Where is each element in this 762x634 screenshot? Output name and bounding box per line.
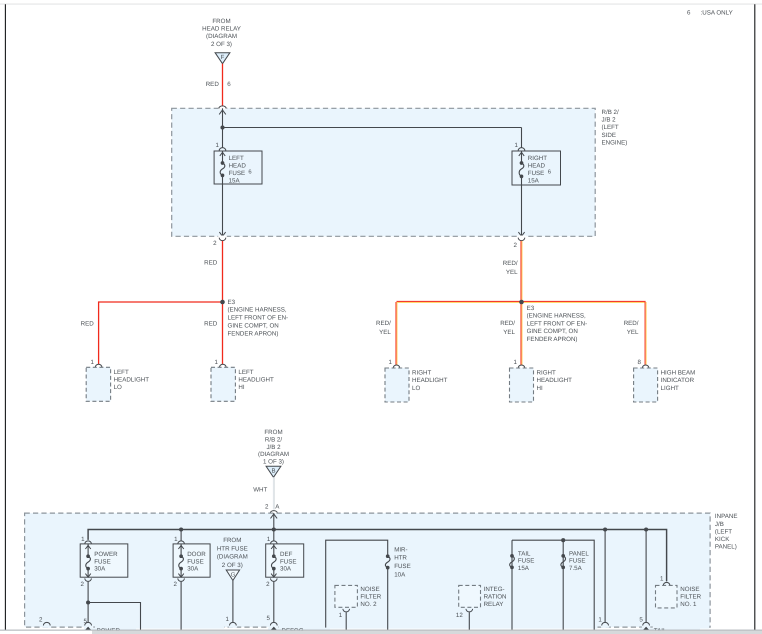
svg-text:HEAD RELAY: HEAD RELAY (202, 26, 241, 33)
svg-text:FILTER: FILTER (680, 594, 701, 601)
svg-text:RED/: RED/ (376, 320, 391, 327)
pin 1 noise filter 2 (339, 609, 350, 619)
fuse box RIGHT HEAD FUSE (512, 151, 561, 185)
svg-text:LEFT: LEFT (229, 155, 244, 162)
svg-text:FENDER APRON): FENDER APRON) (228, 330, 279, 337)
svg-text:6: 6 (548, 168, 551, 175)
wire right fuse to box bottom (521, 176, 523, 236)
pin 1 left head fuse (216, 142, 226, 151)
arrow into fuse box (220, 152, 225, 156)
svg-text:INDICATOR: INDICATOR (661, 377, 695, 384)
component INTEGRATION RELAY (459, 585, 481, 607)
component TAIL (cut) box top (640, 628, 700, 631)
svg-text:KICK: KICK (715, 536, 730, 543)
label superscript 6 (548, 168, 551, 175)
fuse TAIL FUSE 15A element (510, 554, 515, 569)
wire entry to bus (273, 513, 275, 529)
entry arc into INPANE J/B (270, 511, 277, 513)
label NOISE FILTER NO. 2 (360, 586, 381, 608)
svg-text:G: G (231, 571, 236, 578)
svg-text:J/B 2: J/B 2 (602, 117, 617, 124)
svg-text:RED: RED (204, 321, 218, 328)
page top border line (0, 3, 762, 5)
svg-text:15A: 15A (518, 565, 530, 572)
svg-text:NO. 2: NO. 2 (360, 601, 377, 608)
wire mir-htr loop (326, 540, 388, 630)
svg-text:(DIAGRAM: (DIAGRAM (206, 33, 237, 40)
pin 5 def exit (266, 615, 277, 625)
pin 1 noise filter 1 (660, 575, 670, 585)
label INTEG-RATION RELAY (484, 586, 507, 608)
arrow def exit (271, 627, 277, 630)
svg-text:SIDE: SIDE (602, 132, 616, 139)
label DOOR FUSE 30A (187, 551, 206, 573)
wire pin1 to door fuse (180, 544, 182, 556)
svg-text::USA ONLY: :USA ONLY (701, 9, 733, 16)
svg-text:6: 6 (227, 81, 231, 88)
svg-text:WHT: WHT (253, 486, 267, 493)
pin 1 left headlight lo (91, 359, 102, 367)
box edge gap patch 3 (279, 626, 598, 629)
svg-text:(LEFT: (LEFT (602, 124, 619, 131)
svg-text:B: B (271, 468, 275, 475)
svg-text:HEAD: HEAD (229, 162, 247, 169)
wire junction to left fuse pin1 (222, 128, 224, 148)
component HIGH BEAM INDICATOR LIGHT (634, 368, 658, 402)
svg-text:MIR-: MIR- (394, 546, 407, 553)
svg-text:FUSE: FUSE (394, 563, 411, 570)
svg-text:TAIL: TAIL (518, 550, 531, 557)
label LEFT HEADLIGHT HI (238, 369, 274, 391)
svg-text:R/B 2/: R/B 2/ (602, 109, 619, 116)
wire door fuse down (180, 582, 182, 630)
label TAIL (cut) (654, 627, 667, 634)
fuse MIR-HTR FUSE 10A element (385, 554, 390, 569)
pin 1 right head fuse (515, 142, 525, 151)
arrow def exit repeat (271, 627, 277, 630)
svg-text:R/B 2/: R/B 2/ (265, 436, 282, 443)
svg-text:PANEL): PANEL) (715, 544, 737, 551)
fuse box DEF FUSE (266, 544, 304, 577)
svg-text:J/B 2: J/B 2 (266, 444, 281, 451)
svg-text:INPANE: INPANE (715, 513, 738, 520)
arrow power exit (85, 627, 91, 630)
svg-text:15A: 15A (229, 177, 241, 184)
label RED (204, 259, 218, 266)
wire branch right (88, 603, 140, 630)
wire mir-htr fuse down (387, 568, 389, 630)
svg-text:GINE COMPT, ON: GINE COMPT, ON (228, 323, 279, 330)
fuse box DOOR FUSE (173, 544, 210, 577)
arrow exit power fuse box (85, 574, 90, 578)
pin 1 right exit (598, 616, 608, 625)
svg-text:12: 12 (456, 612, 463, 619)
svg-text:2 OF 3): 2 OF 3) (222, 562, 243, 569)
svg-text:YEL: YEL (627, 329, 639, 336)
label E3 engine harness right (527, 305, 588, 343)
svg-text:1: 1 (215, 359, 219, 366)
pin 1 power fuse (81, 536, 91, 544)
wire RED fuse to node E3 (222, 241, 224, 302)
pin 1 left headlight hi (215, 359, 227, 367)
svg-text:NO. 1: NO. 1 (680, 601, 697, 608)
wire right pin1 column (604, 530, 606, 623)
label RED (81, 321, 95, 328)
pin 2 label (265, 503, 269, 510)
wire tail-panel sub bus (512, 540, 594, 630)
dash gap under def pin5 (270, 626, 278, 628)
svg-text:10A: 10A (394, 571, 406, 578)
component DEFOG (cut) box top (268, 628, 330, 631)
bottom grey strip (92, 631, 762, 634)
dash gap at entry (218, 108, 227, 110)
svg-text:(DIAGRAM: (DIAGRAM (258, 451, 289, 458)
wire def fuse to box bottom (273, 569, 275, 578)
pin 12 integration relay (456, 609, 473, 619)
svg-text:(LEFT: (LEFT (715, 528, 732, 535)
label RED (206, 81, 220, 88)
wire RED/YEL branch bus (397, 302, 646, 303)
svg-text:FENDER APRON): FENDER APRON) (527, 336, 578, 343)
page right border line (754, 4, 756, 630)
arrow tail exit repeat (643, 627, 649, 630)
label RED/ YEL (500, 320, 515, 336)
page bottom edge line (0, 629, 762, 631)
label FROM HTR FUSE (DIAGRAM 2 OF 3) (217, 537, 248, 569)
label RIGHT HEAD FUSE 15A (528, 155, 547, 185)
label NOISE FILTER NO. 1 (680, 586, 701, 608)
arrow exit box bottom (219, 232, 225, 236)
label DEF FUSE 30A (280, 551, 297, 573)
arrow exit door fuse box (178, 574, 183, 578)
wire RED/YEL to right headlight lo (396, 302, 397, 365)
wire door fuse to box bottom (180, 569, 182, 578)
arrow exit box bottom (518, 232, 524, 236)
svg-text:RELAY: RELAY (484, 601, 504, 608)
svg-text:1 OF 3): 1 OF 3) (263, 459, 284, 466)
component RIGHT HEADLIGHT HI (510, 368, 534, 402)
label PANEL FUSE 7.5A (569, 550, 589, 572)
svg-text:30A: 30A (94, 566, 106, 573)
svg-text:2: 2 (39, 617, 43, 624)
svg-text:GINE COMPT, ON: GINE COMPT, ON (527, 328, 578, 335)
svg-text:LEFT: LEFT (238, 369, 253, 376)
dash gap under right pin1 (601, 626, 609, 628)
svg-text:1: 1 (91, 359, 95, 366)
R/B 2 J/B 2 box (172, 108, 596, 236)
svg-text:2: 2 (80, 581, 84, 588)
label FROM R/B 2/ J/B 2 (DIAGRAM 1 OF 3) (258, 429, 289, 466)
pin 2 def fuse (266, 578, 277, 588)
svg-text:LEFT FRONT OF EN-: LEFT FRONT OF EN- (527, 320, 588, 327)
svg-text:(DIAGRAM: (DIAGRAM (217, 554, 248, 561)
fuse DOOR FUSE 30A element (179, 554, 184, 570)
fuse box POWER FUSE (80, 544, 128, 577)
page left border line (4, 4, 6, 630)
junction dot power branch (86, 600, 90, 604)
pin 2 power fuse (80, 578, 91, 588)
wire noise filter 2 down (345, 612, 347, 630)
svg-text:1: 1 (267, 536, 271, 543)
wire to right head fuse (521, 128, 523, 148)
wire RED/YEL to right headlight hi (521, 302, 522, 365)
label HIGH BEAM INDICATOR LIGHT (661, 370, 696, 392)
svg-text:DEF: DEF (280, 551, 293, 558)
pin 1 def fuse (267, 536, 277, 544)
wire inside R/B box horizontal bus (223, 127, 522, 129)
svg-text:7.5A: 7.5A (569, 565, 583, 572)
label POWER (cut) (97, 627, 121, 634)
wire inside R/B box vertical from entry (222, 108, 224, 127)
node E3 right (519, 300, 524, 305)
svg-text:E3: E3 (527, 305, 535, 312)
dash gap under stub 2 (43, 626, 51, 628)
svg-text:FUSE: FUSE (187, 558, 204, 565)
component POWER (cut) box top (84, 628, 136, 631)
wire RED E3 to left headlight hi (222, 302, 224, 364)
fuse box LEFT HEAD FUSE (214, 151, 262, 184)
svg-text:DOOR: DOOR (187, 551, 206, 558)
svg-text:YEL: YEL (503, 329, 515, 336)
junction dot door (179, 527, 183, 531)
pin 1 right headlight hi (514, 359, 525, 368)
svg-text:RED: RED (81, 321, 95, 328)
arrow into def fuse box (271, 545, 276, 549)
svg-text:6: 6 (248, 168, 251, 175)
dash gap under power pin5 (84, 626, 92, 628)
svg-text:2: 2 (266, 581, 270, 588)
svg-text:HEADLIGHT: HEADLIGHT (537, 377, 573, 384)
svg-text:HTR: HTR (394, 555, 407, 562)
svg-text:POWER: POWER (94, 551, 118, 558)
fuse DEF FUSE 30A element (271, 554, 276, 570)
connector B from R/B (266, 466, 281, 477)
pin 1 door fuse (174, 536, 184, 544)
svg-text:1: 1 (339, 612, 343, 619)
svg-text:ENGINE): ENGINE) (602, 140, 628, 147)
svg-text:RED: RED (206, 81, 220, 88)
wire junction to door fuse pin1 (180, 530, 182, 542)
fuse POWER FUSE 30A element (86, 554, 91, 570)
label RIGHT HEADLIGHT HI (537, 370, 573, 392)
pin 2 door fuse (173, 578, 184, 588)
svg-text:FUSE: FUSE (94, 558, 111, 565)
svg-text:J/B: J/B (715, 521, 724, 528)
wire def fuse down (273, 582, 275, 623)
label FROM HEAD RELAY (DIAGRAM 2 OF 3) (202, 18, 241, 48)
svg-text:FROM: FROM (223, 537, 241, 544)
svg-text:FUSE: FUSE (518, 558, 535, 565)
svg-text:HEADLIGHT: HEADLIGHT (412, 377, 448, 384)
label RED (204, 321, 218, 328)
component RIGHT HEADLIGHT LO (385, 368, 409, 402)
label E3 engine harness left (228, 299, 289, 338)
label RED/ YEL (624, 320, 639, 336)
arrow exit def fuse box (271, 574, 276, 578)
svg-text:NOISE: NOISE (680, 586, 699, 593)
svg-text:RIGHT: RIGHT (412, 370, 431, 377)
svg-text:YEL: YEL (506, 269, 518, 276)
wire left fuse to box bottom (222, 175, 224, 236)
svg-text:15A: 15A (528, 177, 540, 184)
connector F from head relay (215, 53, 230, 64)
svg-text:RED: RED (204, 259, 218, 266)
svg-text:6: 6 (687, 9, 691, 16)
pin 2 arc left (213, 238, 226, 247)
svg-text:2: 2 (213, 240, 217, 247)
svg-text:HIGH BEAM: HIGH BEAM (661, 370, 696, 377)
label WHT (253, 486, 267, 493)
node E3 left (220, 300, 225, 305)
arrow into INPANE box (271, 514, 278, 518)
svg-text:1: 1 (660, 575, 664, 582)
svg-text:HEADLIGHT: HEADLIGHT (114, 377, 150, 384)
svg-text:FUSE: FUSE (229, 170, 246, 177)
svg-text:8: 8 (638, 359, 642, 366)
component NOISE FILTER NO.2 (335, 585, 358, 607)
svg-text:1: 1 (226, 616, 230, 623)
label 6 (227, 81, 231, 88)
svg-text:1: 1 (514, 359, 518, 366)
pin 5 power exit (84, 618, 92, 625)
wire WHT connector B to J/B (273, 477, 275, 509)
svg-text:FILTER: FILTER (360, 593, 381, 600)
svg-text:PANEL: PANEL (569, 550, 589, 557)
wire tail fuse column (511, 540, 513, 630)
label MIR-HTR FUSE 10A (394, 546, 411, 578)
svg-text:E3: E3 (228, 299, 236, 306)
svg-text:5: 5 (266, 615, 270, 622)
box edge gap patch 2 (95, 626, 224, 629)
label RED/ YEL (503, 260, 518, 276)
wire integration relay down (468, 612, 470, 630)
pin 1 HTR exit (226, 616, 237, 626)
arrow into power fuse box (85, 545, 90, 549)
svg-text:RIGHT: RIGHT (537, 370, 556, 377)
wire RED/YEL to high beam indicator (645, 302, 646, 365)
svg-text:5: 5 (639, 617, 643, 624)
svg-text:30A: 30A (187, 566, 199, 573)
svg-text:2: 2 (265, 503, 269, 510)
fuse PANEL FUSE 7.5A element (561, 554, 566, 569)
svg-text:FROM: FROM (264, 429, 282, 436)
junction dot pin5 right (644, 527, 648, 531)
svg-text:1: 1 (598, 616, 602, 623)
svg-text:FUSE: FUSE (280, 558, 297, 565)
entry arc into R/B box (219, 106, 226, 114)
pin 5 right exit (639, 617, 649, 626)
bus wire inside J/B (88, 530, 667, 582)
label POWER FUSE 30A (94, 551, 118, 573)
pin 2 stub far left (39, 617, 50, 626)
dash gap under right pin5 (642, 626, 650, 628)
pin 1 right headlight lo (389, 359, 400, 368)
wire HTR connector down (232, 581, 234, 623)
svg-text:RIGHT: RIGHT (528, 155, 547, 162)
dash gap under htr pin1 (229, 626, 237, 628)
pin 8 high beam indicator (638, 359, 649, 368)
svg-text:1: 1 (389, 359, 393, 366)
svg-text:(ENGINE HARNESS,: (ENGINE HARNESS, (527, 313, 586, 320)
junction dot def (272, 527, 276, 531)
wire power fuse down (87, 582, 89, 623)
svg-text:5: 5 (84, 618, 88, 625)
wire RED from connector F to R/B box (222, 64, 224, 106)
wire RED/YEL fuse to node E3 (521, 241, 522, 302)
svg-text:HTR FUSE: HTR FUSE (217, 545, 248, 552)
svg-text:YEL: YEL (379, 329, 391, 336)
arrow into door fuse box (178, 545, 183, 549)
fuse LEFT HEAD FUSE 15A element (220, 161, 225, 177)
svg-text:HEAD: HEAD (528, 162, 546, 169)
component LEFT HEADLIGHT HI (211, 367, 235, 401)
svg-text:LEFT: LEFT (114, 369, 129, 376)
arrow power exit repeat (85, 627, 91, 630)
label RED/ YEL (376, 320, 391, 336)
svg-text:1: 1 (216, 142, 220, 149)
pin 2 arc right (514, 238, 525, 249)
svg-text:RED/: RED/ (624, 320, 639, 327)
svg-text:RED/: RED/ (500, 320, 515, 327)
svg-text:1: 1 (81, 536, 85, 543)
label LEFT HEADLIGHT LO (114, 369, 150, 391)
svg-text:NOISE: NOISE (360, 586, 379, 593)
svg-text:LEFT FRONT OF EN-: LEFT FRONT OF EN- (228, 315, 289, 322)
svg-text:INTEG-: INTEG- (484, 586, 505, 593)
connector G from HTR fuse (226, 570, 239, 581)
wire power fuse to box bottom (87, 569, 89, 578)
wire pin1 to def fuse (273, 544, 275, 556)
svg-text:FUSE: FUSE (569, 558, 586, 565)
label DEFOG (cut) (282, 627, 304, 634)
INPANE J/B box (25, 513, 711, 627)
svg-text:30A: 30A (280, 566, 292, 573)
pin A label (275, 503, 280, 510)
wire panel fuse column (562, 540, 564, 630)
svg-text:LIGHT: LIGHT (661, 385, 679, 392)
wire pin1 to fuse (222, 151, 224, 163)
svg-text:2: 2 (173, 581, 177, 588)
arrow tail exit (643, 627, 649, 630)
label superscript 6 (248, 168, 251, 175)
box edge gap patch (654, 626, 709, 629)
svg-text:1: 1 (174, 536, 178, 543)
svg-text:FROM: FROM (212, 18, 230, 25)
dash gap at A entry (270, 512, 279, 514)
svg-text:RATION: RATION (484, 593, 507, 600)
label LEFT HEAD FUSE 15A (229, 155, 247, 185)
svg-text:RED/: RED/ (503, 260, 518, 267)
wire RED branch to left headlight lo (99, 302, 223, 364)
label TAIL FUSE 15A (518, 550, 535, 572)
wire junction to def fuse pin1 (273, 530, 275, 542)
svg-text:HI: HI (537, 385, 543, 392)
label RIGHT HEADLIGHT LO (412, 370, 448, 392)
junction dot (220, 125, 224, 129)
component NOISE FILTER NO.1 (656, 585, 678, 608)
junction dot pin1 right (603, 527, 607, 531)
dash gap at right exit (517, 236, 526, 238)
dash gap at left exit (218, 236, 227, 238)
svg-text:LO: LO (114, 384, 122, 391)
fuse RIGHT HEAD FUSE 15A element (519, 161, 524, 178)
svg-text:FUSE: FUSE (528, 170, 545, 177)
arrow into fuse box (519, 152, 524, 156)
component LEFT HEADLIGHT LO (86, 367, 110, 401)
svg-text:HEADLIGHT: HEADLIGHT (238, 377, 274, 384)
note 6 USA ONLY (687, 9, 733, 16)
svg-text:LO: LO (412, 385, 420, 392)
